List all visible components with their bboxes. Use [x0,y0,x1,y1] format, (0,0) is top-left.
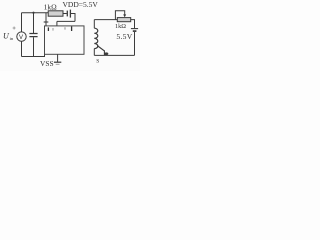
svg-text:VDD=5.5V: VDD=5.5V [63,0,99,9]
wire cap top [33,13,35,33]
pin terminal bar U1 pin1 [44,21,49,23]
capacitor C2 plate left [66,11,68,17]
battery BT1 plate long [131,28,138,30]
wire R2 right lead [131,20,135,29]
wire top rail [22,12,49,14]
ground bar 1 [54,61,61,63]
pin number 3 [64,27,66,29]
VSS label [40,59,54,68]
wire coil top [93,20,95,29]
svg-text:1kΩ: 1kΩ [115,23,126,30]
resistor R2 value 1kΩ [115,23,126,30]
resistor R2 [117,18,130,22]
pin stub U1 pin2 [56,21,58,26]
source V1 circle [17,32,26,41]
source Uin label [3,32,14,42]
capacitor C2 plate right [69,10,71,18]
wire cap bottom [33,37,35,56]
capacitor C1 [29,34,37,37]
svg-text:V: V [19,35,23,41]
IC U1 box [45,26,85,54]
resistor R1 value 1kΩ [44,2,58,11]
wire C2 to node [71,14,75,22]
svg-text:VSS: VSS [40,59,54,68]
VDD label [63,0,99,9]
inductor L1 [94,28,98,48]
wire R1 right lead [63,13,67,15]
wire gate bus [57,20,75,22]
battery value 5.5V [116,32,132,41]
node cap junction [32,12,34,14]
wire coil to R2 [94,19,117,21]
switch S post [103,50,105,55]
ground bar 2 [56,63,60,65]
battery BT1 plate short [133,30,137,32]
wire coil bottom [93,49,95,56]
pin number 2 [52,28,54,31]
svg-text:1kΩ: 1kΩ [44,2,58,11]
pin number 1 [47,27,49,31]
arrowhead onto R2 [123,14,126,17]
switch S blade [97,46,104,51]
resistor R1 [48,11,63,16]
source polarity plus [13,27,16,30]
wire source top [21,13,23,32]
source V1 symbol [19,35,23,41]
svg-text:5.5V: 5.5V [116,32,132,41]
svg-text:S: S [96,59,99,65]
node switch junction [104,52,108,55]
wire VSS pin [57,54,59,62]
wire bottom rail right [94,54,134,56]
wire source bottom [21,41,23,56]
switch S label [96,59,99,65]
pin number 4 [71,26,73,31]
wire bottom rail left [22,54,45,56]
wire arrow loop [115,11,124,20]
wire battery bottom [134,32,136,55]
wire rail to U1 pin1 [45,13,47,26]
